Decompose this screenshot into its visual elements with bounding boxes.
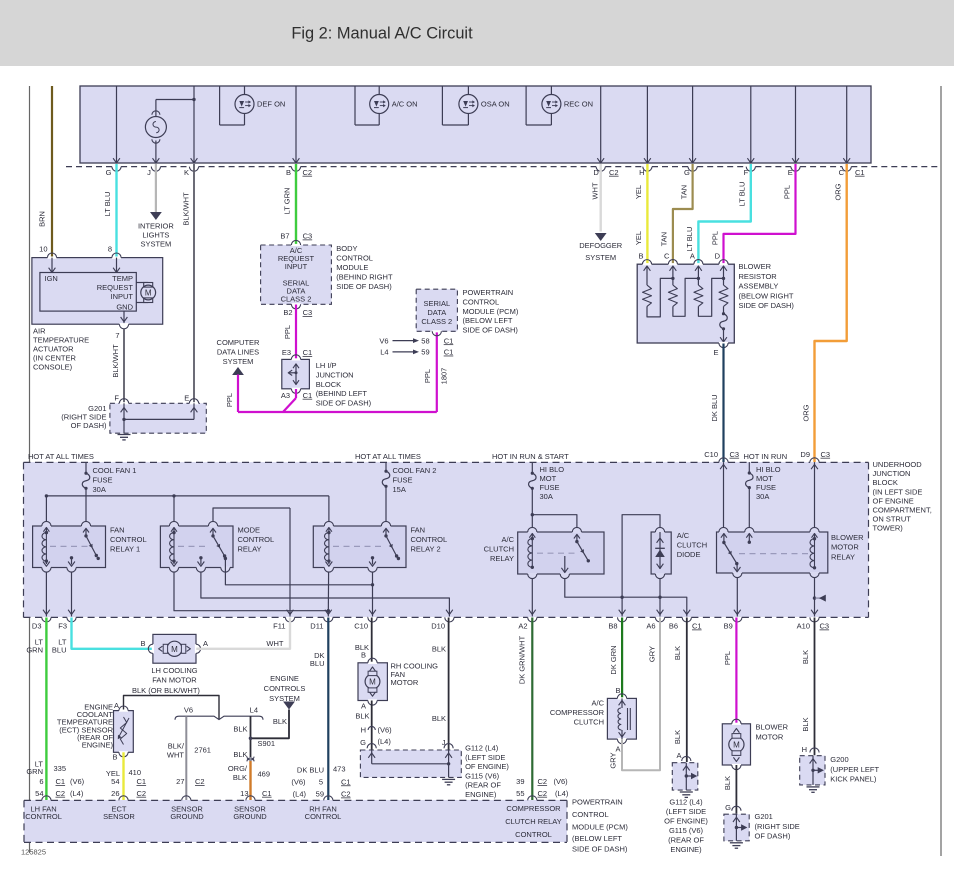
wire PPL A3 diagonal xyxy=(295,389,297,398)
ground symbol G200 xyxy=(807,786,820,788)
wire WHT LH motor to F11 xyxy=(196,618,290,649)
svg-text:LT BLU: LT BLU xyxy=(685,227,694,252)
svg-text:G112 (L4): G112 (L4) xyxy=(669,798,703,807)
connector bump xyxy=(842,167,851,172)
blower resistor assembly box xyxy=(637,264,734,343)
svg-text:ORG: ORG xyxy=(801,404,810,421)
svg-text:C2: C2 xyxy=(56,789,66,798)
svg-text:C: C xyxy=(839,168,845,177)
svg-text:C10: C10 xyxy=(354,622,368,631)
clutch relay switch feed xyxy=(532,515,577,528)
resistor element 3 xyxy=(694,285,703,306)
svg-text:MOTOR: MOTOR xyxy=(756,733,784,742)
svg-text:A: A xyxy=(676,751,681,760)
ground block G201 left xyxy=(110,403,206,433)
resistor element 1 xyxy=(643,285,652,306)
V6 L4 split brace xyxy=(175,716,263,720)
svg-text:A/C: A/C xyxy=(591,699,604,708)
svg-text:A/C: A/C xyxy=(677,531,690,540)
defogger system arrow xyxy=(595,233,607,241)
svg-text:SENSOR: SENSOR xyxy=(103,812,135,821)
svg-text:V6: V6 xyxy=(184,706,193,715)
svg-text:C1: C1 xyxy=(56,777,66,786)
wire BLK A10 to G200 xyxy=(814,618,816,756)
svg-text:RELAY 2: RELAY 2 xyxy=(411,544,441,553)
wire BLK L4 sensor ground upper xyxy=(250,716,252,757)
LH I/P junction block xyxy=(282,359,310,388)
svg-text:FUSE: FUSE xyxy=(756,483,776,492)
svg-text:A10: A10 xyxy=(797,622,810,631)
inline connector on sensor ground xyxy=(247,757,254,761)
svg-text:CONTROL: CONTROL xyxy=(336,254,373,263)
svg-text:30A: 30A xyxy=(756,492,769,501)
wire LT BLU F to resistor A xyxy=(698,164,750,264)
svg-text:OF ENGINE): OF ENGINE) xyxy=(664,817,708,826)
svg-text:39: 39 xyxy=(516,777,524,786)
svg-text:ACTUATOR: ACTUATOR xyxy=(33,345,74,354)
svg-text:BLK: BLK xyxy=(233,773,247,782)
svg-text:LIGHTS: LIGHTS xyxy=(142,231,169,240)
wire DK BLU E to underhood C10 xyxy=(722,344,724,463)
svg-text:8: 8 xyxy=(108,245,112,254)
svg-text:(BEHIND LEFT: (BEHIND LEFT xyxy=(316,389,368,398)
svg-text:10: 10 xyxy=(39,245,47,254)
svg-text:B8: B8 xyxy=(608,622,617,631)
connector bump xyxy=(291,167,300,172)
svg-text:ON STRUT: ON STRUT xyxy=(873,515,912,524)
svg-text:410: 410 xyxy=(129,768,142,777)
svg-text:COMPRESSOR: COMPRESSOR xyxy=(506,804,561,813)
svg-text:RELAY: RELAY xyxy=(831,552,855,561)
relay 2 switch blade xyxy=(384,534,387,537)
pin 10 bump xyxy=(47,257,56,259)
wire PPL E to resistor D xyxy=(724,164,796,264)
C10 wire inside block xyxy=(723,462,725,527)
svg-text:BLK/WHT: BLK/WHT xyxy=(181,192,190,226)
svg-text:HI BLO: HI BLO xyxy=(756,465,781,474)
svg-text:GRN: GRN xyxy=(26,646,43,655)
svg-text:V6: V6 xyxy=(379,336,388,345)
A/C clutch diode box xyxy=(651,532,671,574)
svg-text:54: 54 xyxy=(35,789,43,798)
svg-text:FAN: FAN xyxy=(110,525,125,534)
svg-text:B9: B9 xyxy=(724,622,733,631)
svg-text:F3: F3 xyxy=(58,622,67,631)
wire B8 riser to diode top xyxy=(622,515,660,617)
ground block G112/G115 compressor xyxy=(672,763,698,790)
svg-text:DK GRN/WHT: DK GRN/WHT xyxy=(518,635,527,684)
resistor terminal A xyxy=(694,263,703,265)
G201 internal wires xyxy=(123,403,125,419)
IGN wire inside actuator xyxy=(51,258,53,273)
svg-text:FAN: FAN xyxy=(411,525,426,534)
svg-text:C2: C2 xyxy=(303,168,313,177)
svg-text:OF ENGINE): OF ENGINE) xyxy=(465,762,509,771)
svg-text:WHT: WHT xyxy=(266,639,283,648)
svg-text:H: H xyxy=(639,168,644,177)
wire BLK B6 to G112 xyxy=(686,618,688,763)
svg-text:BLOCK: BLOCK xyxy=(873,478,898,487)
svg-text:469: 469 xyxy=(258,770,271,779)
svg-text:C3: C3 xyxy=(820,622,830,631)
B7 bump xyxy=(291,244,300,246)
wire PPL B9 to blower motor xyxy=(735,618,737,724)
block exit bump xyxy=(655,617,664,622)
wire BLK S901 to engine controls xyxy=(252,710,289,739)
BCM A/C request input box xyxy=(261,245,332,304)
svg-text:SIDE OF DASH): SIDE OF DASH) xyxy=(739,301,795,310)
svg-text:BLOCK: BLOCK xyxy=(316,380,341,389)
actuator GND wire pin 7 xyxy=(123,311,125,324)
svg-text:(REAR OF: (REAR OF xyxy=(668,836,704,845)
connector bump xyxy=(151,167,160,172)
mode relay output arrow xyxy=(199,556,202,559)
PCM entry bump xyxy=(324,796,333,801)
RH cooling fan motor xyxy=(358,663,387,701)
svg-text:B: B xyxy=(286,168,291,177)
mode control relay xyxy=(160,526,233,568)
svg-text:F: F xyxy=(744,168,749,177)
svg-text:ASSEMBLY: ASSEMBLY xyxy=(739,282,779,291)
svg-text:C1: C1 xyxy=(341,777,351,786)
svg-text:BODY: BODY xyxy=(336,244,357,253)
block exit bump xyxy=(67,617,76,622)
svg-text:LH COOLING: LH COOLING xyxy=(151,666,197,675)
mode relay switch blade xyxy=(211,534,214,537)
svg-text:M: M xyxy=(171,645,178,654)
wire BLK/WHT V6 sensor ground xyxy=(185,716,187,800)
svg-text:27: 27 xyxy=(176,777,184,786)
svg-text:SYSTEM: SYSTEM xyxy=(223,357,254,366)
svg-text:C10: C10 xyxy=(704,450,718,459)
svg-text:KICK PANEL): KICK PANEL) xyxy=(830,775,877,784)
svg-text:(IN CENTER: (IN CENTER xyxy=(33,354,77,363)
svg-text:GND: GND xyxy=(116,303,133,312)
wire BLK RH motor to G112 xyxy=(371,701,373,750)
A/C control head block xyxy=(80,86,871,163)
svg-text:HOT IN RUN: HOT IN RUN xyxy=(744,452,788,461)
wire B inside control head xyxy=(295,86,297,163)
svg-text:CONTROL: CONTROL xyxy=(305,812,342,821)
left page border xyxy=(29,86,31,853)
connector bump xyxy=(746,167,755,172)
wire BLK/WHT pin7 to G201 F xyxy=(123,329,125,403)
connector bump xyxy=(596,167,605,172)
wire PPL B2 to E3 xyxy=(295,305,297,360)
svg-text:BLK: BLK xyxy=(432,714,446,723)
svg-text:SIDE OF DASH): SIDE OF DASH) xyxy=(572,845,628,854)
wire TAN G to resistor C xyxy=(673,164,693,264)
fan control relay 1 xyxy=(33,526,106,568)
svg-text:B: B xyxy=(112,753,117,762)
wire PPL riser to PCM xyxy=(436,332,438,413)
wire relay2 output to C10 exit xyxy=(372,572,374,617)
svg-text:TAN: TAN xyxy=(680,185,689,199)
svg-text:IGN: IGN xyxy=(45,274,58,283)
svg-text:BLK: BLK xyxy=(355,712,369,721)
resistor terminal E xyxy=(719,342,728,344)
junction block internal arrows xyxy=(295,364,297,384)
C10 entry bump xyxy=(719,458,728,463)
svg-text:CONTROL: CONTROL xyxy=(411,535,448,544)
svg-text:BLK: BLK xyxy=(801,717,810,731)
svg-text:BLOWER: BLOWER xyxy=(739,262,772,271)
svg-text:C2: C2 xyxy=(538,777,548,786)
wire BRN circuit to pin 10 xyxy=(51,86,53,257)
svg-text:C2: C2 xyxy=(609,168,619,177)
resistor terminal B xyxy=(642,263,651,265)
wire clutch coil to A2 xyxy=(531,578,533,617)
actuator motor M xyxy=(136,282,148,284)
blower motor relay xyxy=(717,532,828,573)
relay 1 coil riser xyxy=(45,496,47,521)
svg-text:(L4): (L4) xyxy=(378,737,392,746)
svg-text:CONTROL: CONTROL xyxy=(572,810,609,819)
wire BLK D10 to G112 J xyxy=(448,618,450,750)
svg-text:INPUT: INPUT xyxy=(111,292,134,301)
relay 1 output arrow xyxy=(70,556,73,559)
svg-text:CLUTCH: CLUTCH xyxy=(484,545,514,554)
svg-text:REQUEST: REQUEST xyxy=(97,283,134,292)
block exit bump xyxy=(682,617,691,622)
svg-text:BLOWER: BLOWER xyxy=(756,723,789,732)
block exit bump xyxy=(368,617,377,622)
resistor terminal C xyxy=(668,263,677,265)
svg-text:TEMPERATURE: TEMPERATURE xyxy=(33,336,89,345)
svg-text:INTERIOR: INTERIOR xyxy=(138,222,174,231)
svg-text:WHT: WHT xyxy=(167,751,184,760)
svg-text:GRY: GRY xyxy=(647,646,656,662)
svg-text:ENGINE): ENGINE) xyxy=(670,845,702,854)
relay 1 switch blade xyxy=(84,534,87,537)
air temperature actuator box xyxy=(32,258,163,325)
svg-text:D10: D10 xyxy=(431,622,445,631)
svg-text:30A: 30A xyxy=(540,492,553,501)
svg-text:G115 (V6): G115 (V6) xyxy=(669,826,704,835)
svg-text:UNDERHOOD: UNDERHOOD xyxy=(873,460,923,469)
svg-text:E: E xyxy=(788,168,793,177)
svg-text:G: G xyxy=(106,168,112,177)
svg-text:BLK: BLK xyxy=(233,750,247,759)
A/C clutch relay xyxy=(518,532,604,574)
A3 bump xyxy=(291,388,300,390)
svg-text:5: 5 xyxy=(319,777,323,786)
connector bump xyxy=(688,167,697,172)
wire ORG/BLK to PCM xyxy=(249,761,251,800)
svg-text:HOT IN RUN & START: HOT IN RUN & START xyxy=(492,452,569,461)
svg-text:CLUTCH RELAY: CLUTCH RELAY xyxy=(505,817,562,826)
clutch relay switch blade xyxy=(575,540,578,543)
wire relay1 output to F3 xyxy=(71,572,73,617)
A10 branch stub arrow xyxy=(816,597,821,599)
svg-text:125825: 125825 xyxy=(21,848,46,857)
PCM serial data class 2 box xyxy=(416,289,457,331)
svg-text:58: 58 xyxy=(421,336,429,345)
svg-text:GRN: GRN xyxy=(26,767,43,776)
illumination lamp xyxy=(145,117,166,138)
resistor element 2 xyxy=(668,285,677,306)
svg-text:2761: 2761 xyxy=(194,746,211,755)
svg-text:E: E xyxy=(713,348,718,357)
ground symbol G112 compressor xyxy=(680,791,693,793)
wire G inside control head xyxy=(116,86,118,163)
svg-text:A/C: A/C xyxy=(501,535,514,544)
svg-text:C1: C1 xyxy=(692,622,702,631)
cool fan 1 fuse 30A xyxy=(85,462,87,473)
wire K inside control head xyxy=(193,86,195,163)
svg-text:PPL: PPL xyxy=(423,369,432,383)
svg-text:DEF ON: DEF ON xyxy=(257,100,285,109)
svg-text:GRY: GRY xyxy=(609,752,618,768)
svg-text:CONTROL: CONTROL xyxy=(238,535,275,544)
svg-text:BLK: BLK xyxy=(273,717,287,726)
svg-text:GROUND: GROUND xyxy=(233,812,267,821)
wire LT GRN B to BCM xyxy=(295,164,297,245)
ground block G200 xyxy=(800,756,825,785)
svg-text:C1: C1 xyxy=(444,348,454,357)
fan control relay 2 xyxy=(313,526,406,568)
clutch relay output arrow xyxy=(564,556,566,572)
svg-text:CONTROL: CONTROL xyxy=(110,535,147,544)
svg-text:ORG/: ORG/ xyxy=(228,764,248,773)
svg-text:CLASS 2: CLASS 2 xyxy=(421,317,452,326)
wire BLK C10 to RH fan motor xyxy=(371,618,373,663)
svg-text:1807: 1807 xyxy=(439,368,448,385)
svg-text:(LEFT SIDE: (LEFT SIDE xyxy=(666,807,706,816)
title bar xyxy=(0,0,954,66)
right page border xyxy=(940,86,942,856)
TEMP REQUEST wire inside actuator xyxy=(116,258,118,273)
indicator LED REC ON xyxy=(550,86,552,95)
svg-text:(V6): (V6) xyxy=(554,777,569,786)
svg-text:OSA ON: OSA ON xyxy=(481,100,510,109)
resistor terminal D xyxy=(719,263,728,265)
wire ORG C to underhood D9 xyxy=(815,164,847,462)
svg-text:M: M xyxy=(733,741,740,750)
ground symbol G112 RH xyxy=(442,778,455,780)
svg-text:C2: C2 xyxy=(341,790,351,799)
svg-text:POWERTRAIN: POWERTRAIN xyxy=(572,798,623,807)
svg-text:(IN LEFT SIDE: (IN LEFT SIDE xyxy=(873,487,923,496)
svg-text:COMPUTER: COMPUTER xyxy=(217,338,261,347)
svg-text:WHT: WHT xyxy=(590,182,599,199)
wire DK GRN/WHT A2 to PCM xyxy=(531,618,533,801)
svg-text:SERIAL: SERIAL xyxy=(423,299,450,308)
svg-text:J: J xyxy=(147,168,151,177)
svg-text:DK GRN: DK GRN xyxy=(609,645,618,674)
pin 8 bump xyxy=(112,257,121,259)
svg-text:FUSE: FUSE xyxy=(540,483,560,492)
svg-text:C2: C2 xyxy=(538,789,548,798)
E bump xyxy=(189,402,198,404)
svg-text:COMPRESSOR: COMPRESSOR xyxy=(550,708,605,717)
wire GRY J to interior lights xyxy=(155,164,157,213)
svg-text:B: B xyxy=(615,686,620,695)
svg-text:(V6): (V6) xyxy=(70,777,85,786)
svg-text:(RIGHT SIDE: (RIGHT SIDE xyxy=(755,822,800,831)
svg-text:COOL FAN 1: COOL FAN 1 xyxy=(93,466,137,475)
svg-text:M: M xyxy=(145,289,152,298)
connector bump xyxy=(791,167,800,172)
blower motor xyxy=(722,724,750,765)
svg-text:HI BLO: HI BLO xyxy=(540,465,565,474)
blower relay output arrow xyxy=(736,564,738,571)
svg-text:C1: C1 xyxy=(303,391,313,400)
diode symbol xyxy=(655,550,665,558)
connector bump xyxy=(189,167,198,172)
svg-text:H: H xyxy=(361,726,366,735)
svg-text:SIDE OF DASH): SIDE OF DASH) xyxy=(316,399,372,408)
wire BLK fan ground bracket xyxy=(124,696,220,720)
svg-text:15A: 15A xyxy=(393,485,406,494)
cool fan 2 fuse 15A xyxy=(385,462,387,471)
svg-text:Fig 2: Manual A/C Circuit: Fig 2: Manual A/C Circuit xyxy=(291,25,473,43)
B2 bump xyxy=(291,303,300,305)
indicator LED DEF ON xyxy=(244,86,246,95)
svg-text:E3: E3 xyxy=(282,348,291,357)
svg-text:YEL: YEL xyxy=(634,231,643,245)
svg-text:54: 54 xyxy=(111,777,119,786)
svg-text:ENGINE): ENGINE) xyxy=(465,790,497,799)
svg-text:7: 7 xyxy=(115,331,119,340)
svg-text:C3: C3 xyxy=(821,450,831,459)
svg-text:AIR: AIR xyxy=(33,327,46,336)
svg-text:OF DASH): OF DASH) xyxy=(755,832,791,841)
PCM entry bump xyxy=(182,796,191,801)
block exit bump xyxy=(733,617,742,622)
block exit bump xyxy=(285,617,294,622)
svg-text:C1: C1 xyxy=(137,777,147,786)
svg-text:(L4): (L4) xyxy=(293,790,307,799)
svg-text:D: D xyxy=(593,168,599,177)
svg-text:HOT AT ALL TIMES: HOT AT ALL TIMES xyxy=(355,452,421,461)
svg-text:CLUTCH: CLUTCH xyxy=(677,541,707,550)
indicator LED A/C ON xyxy=(378,86,380,95)
clutch coil symbol xyxy=(618,708,622,730)
PCM entry bump xyxy=(42,796,51,801)
svg-text:MODE: MODE xyxy=(238,525,261,534)
svg-text:MOTOR: MOTOR xyxy=(831,543,859,552)
resistor element 4 and thermal limiter xyxy=(719,285,728,306)
svg-text:CONSOLE): CONSOLE) xyxy=(33,363,73,372)
svg-text:(BEHIND RIGHT: (BEHIND RIGHT xyxy=(336,273,393,282)
svg-text:(BELOW LEFT: (BELOW LEFT xyxy=(572,834,622,843)
svg-text:C2: C2 xyxy=(195,777,205,786)
block exit bump xyxy=(324,617,333,622)
svg-text:RELAY 1: RELAY 1 xyxy=(110,544,140,553)
svg-text:S901: S901 xyxy=(258,739,276,748)
svg-text:HOT AT ALL TIMES: HOT AT ALL TIMES xyxy=(28,452,94,461)
mode relay coil riser xyxy=(173,496,175,521)
svg-text:(UPPER LEFT: (UPPER LEFT xyxy=(830,765,879,774)
wire PPL computer data lines riser xyxy=(237,375,239,413)
block exit bump xyxy=(810,617,819,622)
svg-text:6: 6 xyxy=(39,777,43,786)
blower relay fixed contact xyxy=(748,534,750,543)
svg-text:MOT: MOT xyxy=(540,474,557,483)
connector bump xyxy=(112,167,121,172)
svg-text:(REAR OF: (REAR OF xyxy=(465,781,501,790)
svg-text:LT BLU: LT BLU xyxy=(103,192,112,217)
svg-text:BLK: BLK xyxy=(233,725,247,734)
svg-text:SYSTEM: SYSTEM xyxy=(140,240,171,249)
wire GRY clutch A to A6 xyxy=(622,618,660,771)
hi blo mot fuse 30A right xyxy=(748,462,750,473)
svg-text:SIDE OF DASH): SIDE OF DASH) xyxy=(336,282,392,291)
svg-text:C1: C1 xyxy=(303,348,313,357)
svg-text:DATA: DATA xyxy=(427,308,446,317)
svg-text:BLK (OR BLK/WHT): BLK (OR BLK/WHT) xyxy=(132,686,200,695)
